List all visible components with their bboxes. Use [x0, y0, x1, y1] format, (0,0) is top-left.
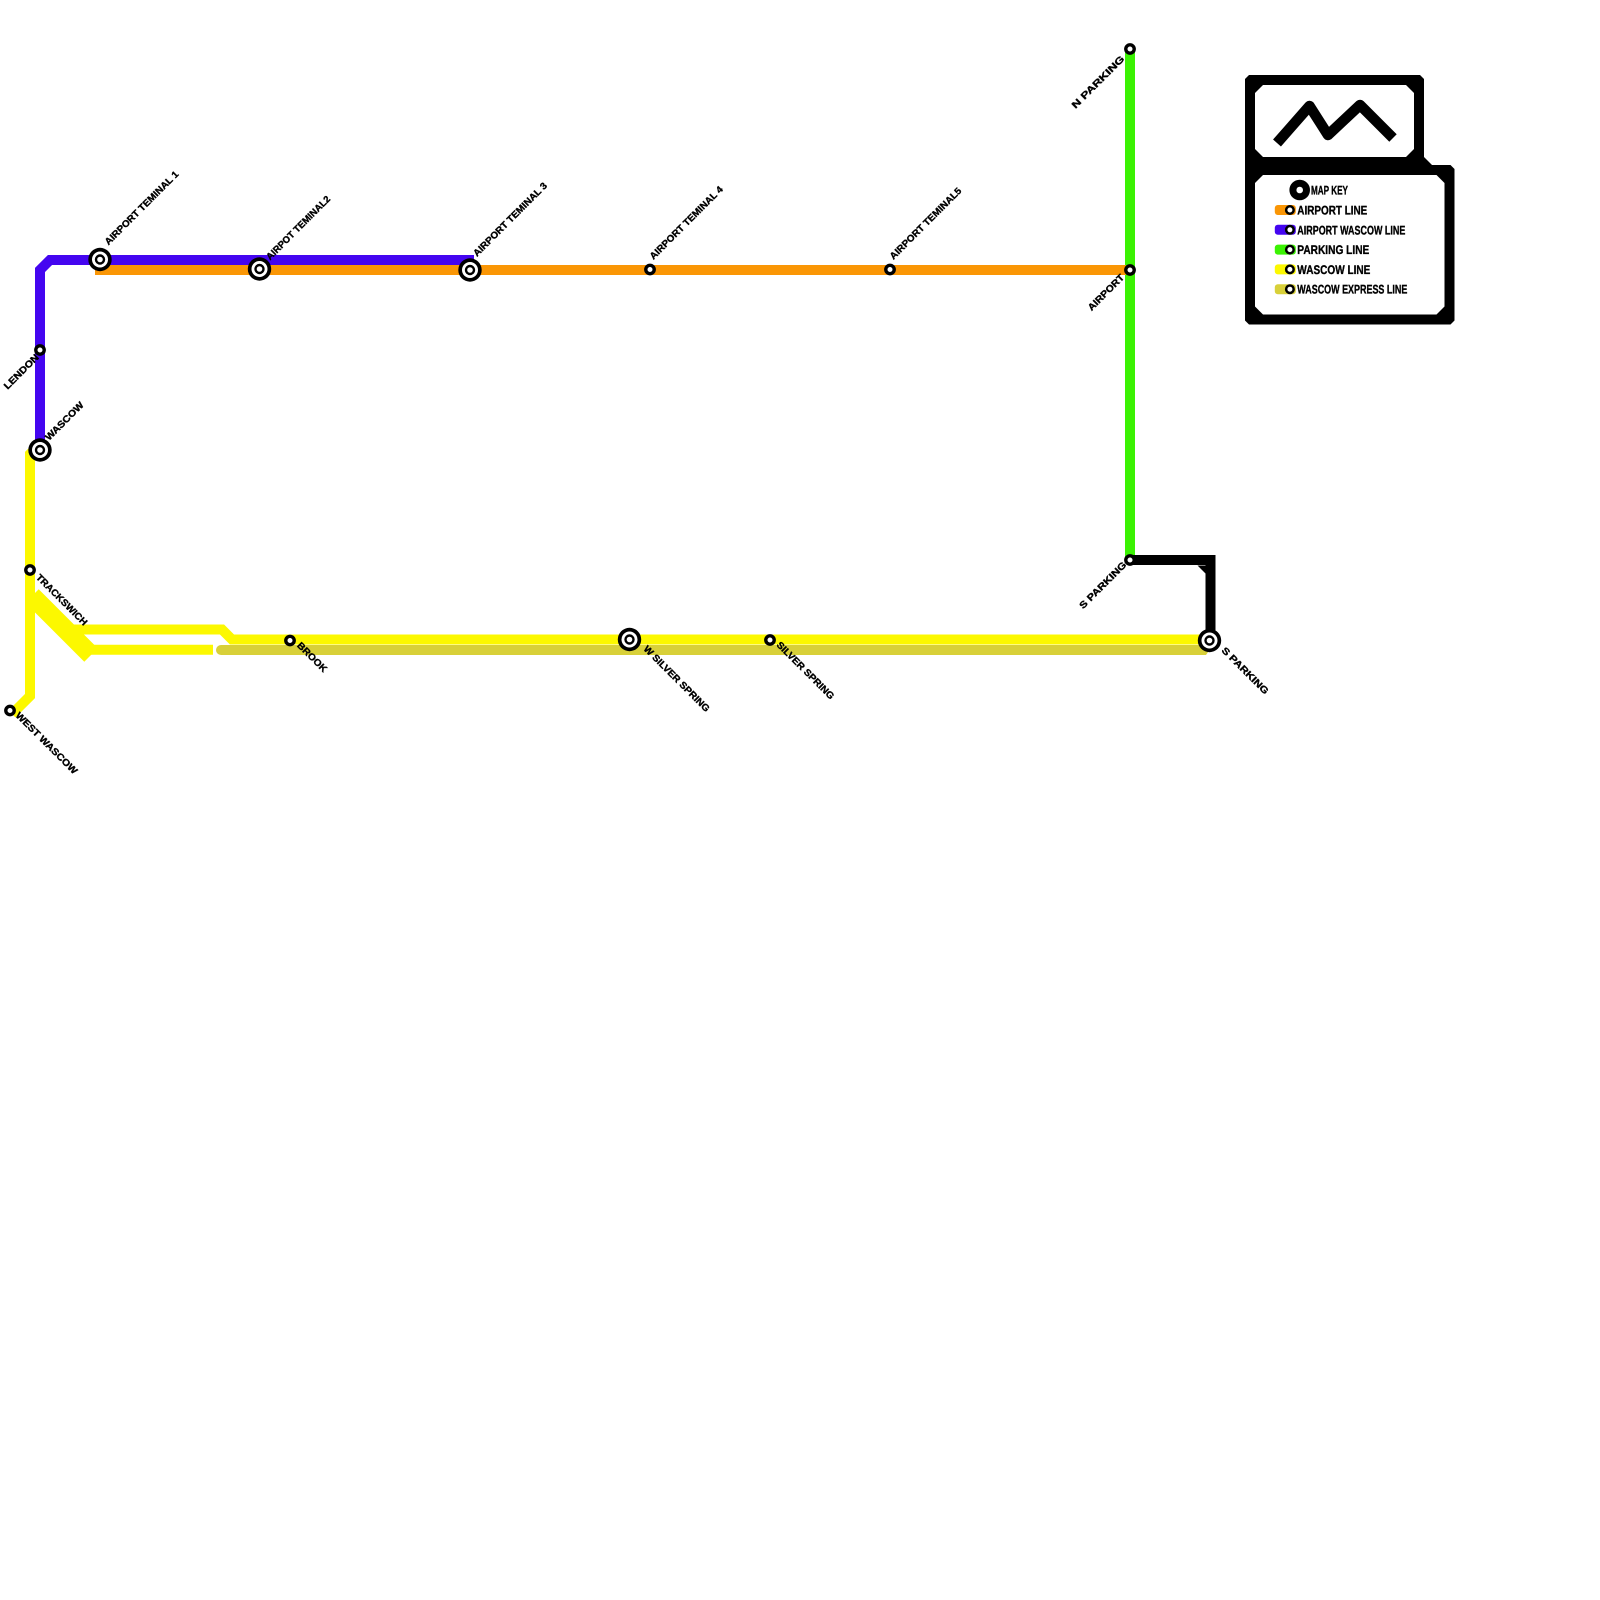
- legend wascow express line swatch: [1275, 284, 1296, 294]
- legend map key icon: [1289, 180, 1310, 201]
- svg-text:AIRPOT TEMINAL2: AIRPOT TEMINAL2: [264, 194, 333, 263]
- legend wascow line swatch: [1275, 264, 1296, 274]
- svg-text:S PARKING: S PARKING: [1219, 645, 1271, 697]
- svg-text:AIRPORT TEMINAL 1: AIRPORT TEMINAL 1: [103, 169, 182, 248]
- station AIRPORT: [1126, 266, 1134, 274]
- svg-text:WASCOW LINE: WASCOW LINE: [1297, 263, 1370, 277]
- station interchange W SILVER SPRING: [618, 628, 641, 651]
- station interchange WASCOW: [28, 438, 51, 461]
- svg-text:WEST WASCOW: WEST WASCOW: [13, 710, 79, 776]
- svg-text:S PARKING: S PARKING: [1078, 560, 1130, 612]
- station TRACKSWICH: [26, 566, 34, 574]
- wire: khaki wascow express line: [216, 645, 1213, 655]
- legend airport wascow line swatch: [1275, 225, 1296, 235]
- station AIRPORT TEMINAL 4: [646, 265, 654, 273]
- station LENDON: [36, 346, 44, 354]
- legend key box: [1245, 165, 1455, 325]
- legend box junction band: [1245, 157, 1424, 175]
- station interchange AIRPOT TEMINAL2: [248, 257, 271, 280]
- station AIRPORT TEMINAL5: [886, 265, 894, 273]
- wire: blue airport wascow line: [40, 260, 474, 450]
- legend logo zigzag: [1277, 105, 1393, 143]
- station SILVER SPRING: [766, 636, 774, 644]
- wire: green parking line: [1125, 49, 1135, 557]
- legend airport line swatch: [1275, 205, 1296, 215]
- station interchange AIRPORT TEMINAL 3: [458, 258, 481, 281]
- wire: yellow upper branch to S Parking: [70, 630, 1210, 640]
- svg-text:AIRPORT LINE: AIRPORT LINE: [1297, 204, 1367, 218]
- station WEST WASCOW: [6, 706, 14, 714]
- svg-text:MAP KEY: MAP KEY: [1311, 184, 1348, 198]
- svg-text:WASCOW EXPRESS LINE: WASCOW EXPRESS LINE: [1297, 283, 1407, 297]
- legend logo box: [1245, 75, 1424, 167]
- svg-text:WASCOW: WASCOW: [43, 400, 86, 443]
- legend box junction flare: [1424, 157, 1432, 165]
- wire: yellow wascow line vertical trunk: [12, 444, 40, 714]
- svg-text:PARKING LINE: PARKING LINE: [1297, 243, 1369, 257]
- svg-text:AIRPORT TEMINAL5: AIRPORT TEMINAL5: [888, 185, 965, 262]
- legend parking line swatch: [1275, 245, 1296, 255]
- wire: orange airport line: [95, 265, 1126, 275]
- svg-text:AIRPORT TEMINAL 4: AIRPORT TEMINAL 4: [648, 184, 726, 262]
- station S PARKING north: [1126, 556, 1134, 564]
- svg-text:AIRPORT WASCOW LINE: AIRPORT WASCOW LINE: [1297, 223, 1405, 237]
- svg-text:N PARKING: N PARKING: [1070, 54, 1127, 111]
- svg-text:AIRPORT TEMINAL 3: AIRPORT TEMINAL 3: [471, 181, 549, 259]
- wire: black connector S Parking: [1132, 560, 1211, 633]
- svg-text:AIRPORT: AIRPORT: [1086, 272, 1127, 313]
- station interchange S PARKING south: [1198, 629, 1221, 652]
- station N PARKING: [1126, 45, 1134, 53]
- station interchange AIRPORT TEMINAL 1: [88, 248, 111, 271]
- wire: yellow wide diagonal branch at Trackswich: [32, 596, 91, 655]
- wire: yellow lower branch stub: [90, 645, 213, 655]
- black connector inner corner fillet: [1198, 566, 1206, 574]
- station BROOK: [286, 636, 294, 644]
